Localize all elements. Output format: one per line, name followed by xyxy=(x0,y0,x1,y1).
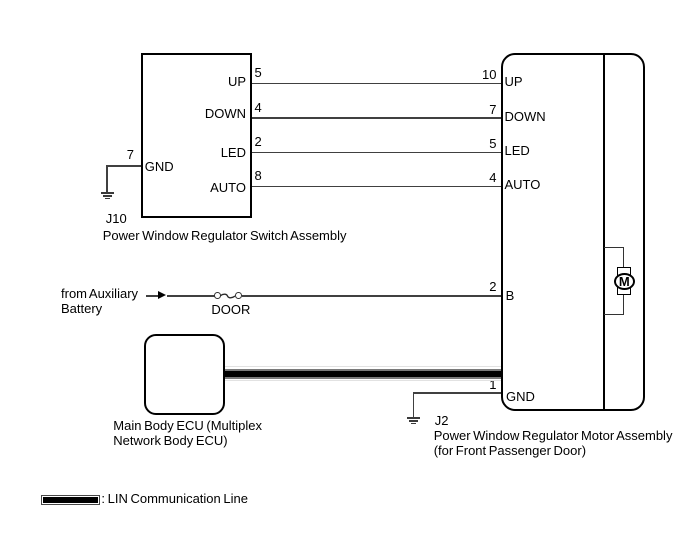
pin 4 label (J10 DOWN) xyxy=(255,100,262,115)
arrow head xyxy=(158,291,166,299)
motor wire top horizontal xyxy=(604,247,624,248)
connector J2 box: Power Window Regulator Motor Assembly xyxy=(501,53,646,411)
legend caption xyxy=(101,491,248,506)
pin 7 label (J2 DOWN) xyxy=(447,102,497,117)
connector J10 box: Power Window Regulator Switch Assembly xyxy=(141,53,253,218)
motor wire bottom vertical xyxy=(623,295,624,315)
pin 7 label (J10 GND) xyxy=(94,147,134,162)
wire B (DOOR to pin 2) xyxy=(242,295,502,297)
J10 label AUTO xyxy=(140,180,246,195)
motor brush rectangle xyxy=(617,267,631,295)
DOOR label xyxy=(211,302,250,317)
DOOR switch contact circle left xyxy=(214,292,221,299)
J2 label GND xyxy=(506,389,535,404)
pin 5 label (J2 LED) xyxy=(447,136,497,151)
LIN communication line (thick) xyxy=(225,366,502,367)
J2 label LED xyxy=(505,143,530,158)
DOOR switch squiggle xyxy=(220,292,235,300)
pin 2 label (J10 LED) xyxy=(255,134,262,149)
ground symbol J2 xyxy=(407,417,420,419)
pin 5 label (J10 UP) xyxy=(255,65,262,80)
ECU caption xyxy=(113,418,262,448)
motor M circle xyxy=(614,273,636,291)
wire GND J2 vertical xyxy=(413,392,415,418)
J2 label AUTO xyxy=(505,177,541,192)
J2 caption xyxy=(434,428,673,458)
pin 8 label (J10 AUTO) xyxy=(255,168,262,183)
pin 1 label (J2 GND) xyxy=(447,377,497,392)
wire LED (pin 2 to pin 5) xyxy=(252,152,501,154)
ground symbol J10 xyxy=(101,192,114,194)
inner divider line of motor assembly box xyxy=(603,54,605,410)
pin 4 label (J2 AUTO) xyxy=(447,170,497,185)
J10 designator xyxy=(106,211,127,226)
DOOR switch contact circle right xyxy=(235,292,242,299)
wire GND J10 vertical xyxy=(106,165,108,194)
J2 label B xyxy=(506,288,515,303)
J2 label DOWN xyxy=(505,109,546,124)
J2 label UP xyxy=(505,74,523,89)
from Auxiliary Battery source label xyxy=(61,286,138,316)
pin 2 label (J2 B) xyxy=(447,279,497,294)
Main Body ECU box xyxy=(144,334,225,415)
wire stub before arrow xyxy=(146,295,161,297)
J10 label GND xyxy=(145,159,174,174)
wire AUTO (pin 8 to pin 4) xyxy=(252,186,501,188)
motor wire bottom horizontal xyxy=(604,314,624,315)
wire GND J10 horizontal xyxy=(106,165,141,167)
wire UP (pin 5 to pin 10) xyxy=(252,83,501,85)
pin 10 label (J2 UP) xyxy=(447,67,497,82)
J2 designator xyxy=(435,413,449,428)
motor wire top vertical xyxy=(623,247,624,268)
J10 label UP xyxy=(140,74,246,89)
legend LIN line sample bar xyxy=(41,495,100,505)
wire from arrow to DOOR switch xyxy=(167,295,215,297)
J10 label DOWN xyxy=(140,106,246,121)
wire DOWN (pin 4 to pin 7) xyxy=(252,117,501,119)
wire GND J2 horizontal xyxy=(413,392,502,394)
J10 caption xyxy=(103,228,347,243)
J10 label LED xyxy=(140,145,246,160)
